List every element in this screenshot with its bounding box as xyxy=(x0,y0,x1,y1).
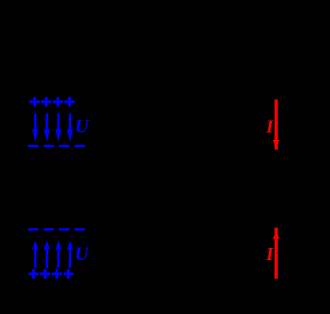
capacitor C2 top plate xyxy=(24,221,94,225)
wire bottom circuit lower xyxy=(59,279,276,308)
wire top circuit lower xyxy=(59,150,276,185)
svg-text:U: U xyxy=(75,244,90,265)
field arrow E1d xyxy=(67,113,73,142)
svg-text:I: I xyxy=(265,244,274,264)
current arrow I top wire xyxy=(273,99,280,149)
field arrow E2d xyxy=(67,240,73,267)
capacitor C2 positive charges xyxy=(29,269,74,279)
capacitor C1 top plate xyxy=(24,89,94,93)
svg-text:U: U xyxy=(75,116,90,137)
capacitor C1 positive charges xyxy=(30,97,75,107)
svg-text:I: I xyxy=(265,117,274,137)
field arrow E2c xyxy=(56,240,62,267)
field arrow E1c xyxy=(56,113,62,142)
field arrow E2b xyxy=(44,240,50,267)
field arrow E1a xyxy=(32,113,38,142)
wire top circuit xyxy=(59,60,276,99)
capacitor C1 bottom plate xyxy=(24,150,94,154)
field arrow E1b xyxy=(44,113,50,142)
capacitor C2 negative charges xyxy=(28,228,85,230)
current arrow I bottom wire xyxy=(273,228,280,279)
field arrow E2a xyxy=(32,240,38,267)
wire bottom circuit xyxy=(59,192,276,228)
capacitor C1 negative charges xyxy=(28,145,85,147)
capacitor C2 bottom plate xyxy=(24,284,94,288)
